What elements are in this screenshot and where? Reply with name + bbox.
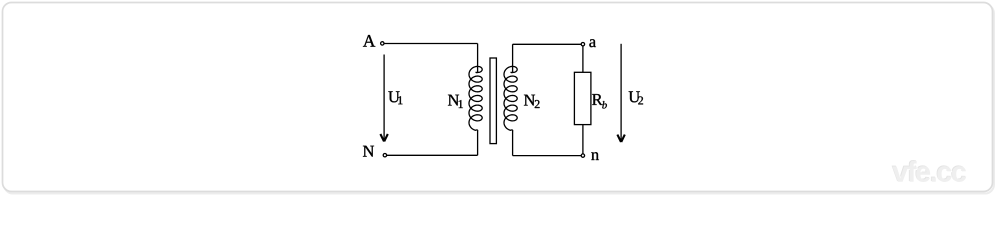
wire: terminal A to primary top corner bbox=[384, 43, 478, 45]
wire: terminal a down to resistor Rb bbox=[582, 46, 584, 72]
wire: primary bottom corner to terminal N bbox=[387, 154, 478, 156]
wire: secondary top corner to terminal a bbox=[513, 43, 582, 45]
label U1 sub bbox=[398, 96, 402, 104]
label N1 sub bbox=[459, 100, 463, 108]
label A bbox=[363, 35, 375, 47]
label N terminal bbox=[363, 146, 374, 157]
winding N1 (primary coil, 6 loops, with vertical wire stubs) bbox=[469, 44, 482, 156]
terminal A circle bbox=[381, 42, 384, 45]
arrow U1 shaft bbox=[383, 55, 385, 140]
label n bbox=[591, 152, 599, 160]
label U2 sub bbox=[638, 96, 643, 104]
arrow U1 head bbox=[380, 134, 387, 141]
label U2 main bbox=[629, 91, 640, 102]
terminal a circle bbox=[581, 43, 584, 46]
label Rb sub bbox=[602, 101, 607, 108]
terminal n circle bbox=[581, 154, 584, 157]
label N2 main bbox=[524, 95, 535, 106]
label Rb main bbox=[592, 94, 603, 105]
arrow U2 head bbox=[617, 135, 624, 142]
resistor Rb body bbox=[574, 72, 591, 124]
label a bbox=[589, 39, 596, 47]
transformer core bar bbox=[490, 58, 496, 144]
wire: secondary bottom corner to terminal n bbox=[513, 155, 582, 157]
label N2 sub bbox=[535, 100, 540, 108]
arrow U2 shaft bbox=[620, 44, 622, 140]
label U1 main bbox=[388, 91, 399, 102]
terminal N circle bbox=[383, 154, 386, 157]
label N1 main bbox=[448, 95, 459, 106]
wire: resistor Rb bottom to terminal n bbox=[582, 125, 584, 154]
winding N2 (secondary coil, 6 loops, with vertical wire stubs) bbox=[504, 44, 517, 155]
